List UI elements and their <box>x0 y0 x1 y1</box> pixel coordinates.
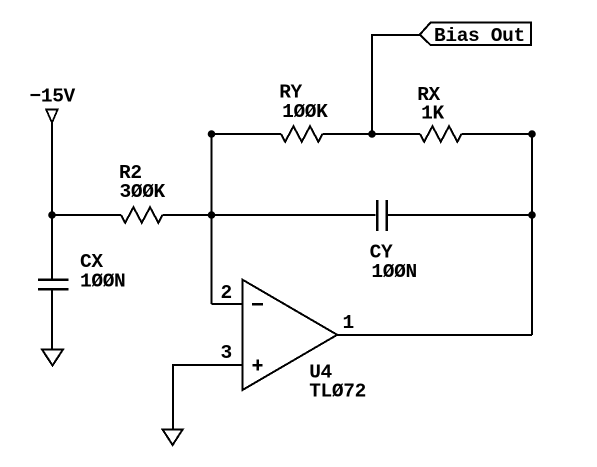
svg-text:1K: 1K <box>421 102 444 124</box>
svg-text:−15V: −15V <box>30 85 76 107</box>
svg-text:1ØØN: 1ØØN <box>371 261 416 283</box>
svg-text:1ØØN: 1ØØN <box>80 271 125 293</box>
svg-text:1ØØK: 1ØØK <box>282 101 328 123</box>
svg-text:1: 1 <box>343 312 354 334</box>
svg-text:Bias Out: Bias Out <box>434 25 525 47</box>
svg-text:2: 2 <box>221 282 232 304</box>
svg-text:3: 3 <box>221 342 232 364</box>
svg-text:TLØ72: TLØ72 <box>309 381 366 403</box>
svg-text:3ØØK: 3ØØK <box>120 181 166 203</box>
